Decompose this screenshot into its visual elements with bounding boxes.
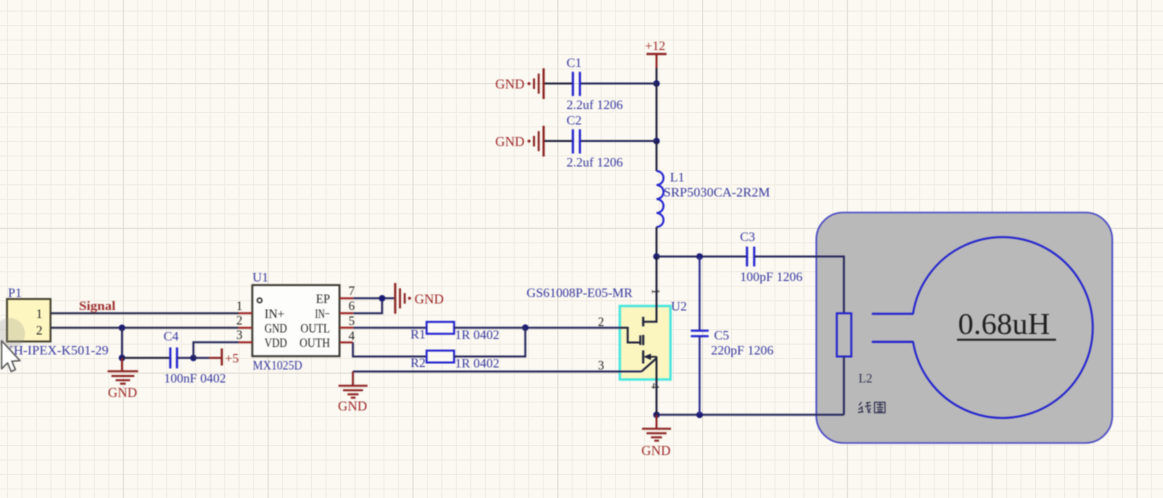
svg-text:C4: C4 (164, 329, 180, 344)
net label Signal (79, 298, 116, 313)
node gate junction (522, 324, 529, 331)
svg-text:R1: R1 (411, 327, 426, 342)
svg-text:GND: GND (641, 443, 670, 458)
svg-text:MX1025D: MX1025D (253, 357, 302, 372)
U1 pin 6 stub (340, 312, 354, 314)
capacitor C4 (164, 329, 227, 386)
U2 mosfet source arrow (644, 354, 657, 360)
node C4 right junction (190, 355, 197, 362)
wire C2 node to L1 (656, 141, 658, 171)
U2 mosfet channel bars (642, 317, 644, 364)
svg-text:GND: GND (495, 134, 524, 149)
svg-text:2.2uf 1206: 2.2uf 1206 (567, 97, 624, 112)
svg-text:OUTH: OUTH (300, 335, 331, 350)
svg-text:OUTL: OUTL (301, 320, 331, 335)
svg-text:1: 1 (36, 306, 43, 321)
U1 pin numbers (236, 284, 355, 343)
svg-text:1R 0402: 1R 0402 (455, 356, 499, 371)
svg-text:VDD: VDD (265, 335, 288, 350)
svg-text:EP: EP (316, 291, 330, 306)
wire gate to U2 (525, 327, 620, 329)
wire bottom rail (657, 414, 844, 416)
wire to C4 (122, 357, 170, 359)
ground at EP (395, 283, 444, 314)
svg-text:2: 2 (236, 313, 242, 327)
svg-text:GS61008P-E05-MR: GS61008P-E05-MR (527, 286, 634, 300)
wire C5 upper (699, 257, 701, 331)
inductor L1 (657, 170, 771, 228)
U2 pin 2 number (598, 315, 604, 329)
node C4 left junction (119, 355, 126, 362)
svg-text:IN+: IN+ (265, 306, 285, 321)
svg-text:P1: P1 (8, 285, 22, 300)
svg-text:220pF 1206: 220pF 1206 (711, 343, 774, 358)
svg-text:SRP5030CA-2R2M: SRP5030CA-2R2M (664, 185, 771, 200)
coil value 0.68uH (957, 306, 1056, 341)
wire C3 to L2 column (755, 257, 844, 314)
cursor halo (0, 318, 25, 349)
svg-text:C1: C1 (567, 55, 582, 70)
wire L2 to bottom rail (843, 357, 845, 415)
wire P1 pin1 to U1 (51, 312, 239, 314)
svg-text:4: 4 (349, 329, 356, 343)
capacitor C2 (567, 113, 624, 170)
wire pin2 down to C4 row (121, 328, 123, 358)
wire switch node to C3 (657, 256, 748, 258)
node bottom left junction (653, 412, 660, 419)
svg-text:5: 5 (349, 314, 355, 328)
svg-text:6: 6 (349, 299, 355, 313)
power +12 (645, 38, 667, 68)
label coil chinese (858, 402, 885, 413)
svg-text:Signal: Signal (79, 298, 116, 313)
capacitor C3 (740, 229, 803, 284)
U1 pin names (265, 291, 331, 350)
svg-text:C5: C5 (714, 328, 729, 343)
U1 pin 7 stub (340, 297, 354, 299)
ground at C4 (108, 358, 139, 400)
wire C5 lower (699, 337, 701, 415)
svg-text:1: 1 (236, 299, 242, 313)
capacitor C1 (567, 55, 624, 112)
connector P1 (4, 285, 109, 357)
inductor L2 symbol (837, 313, 873, 385)
U1 pin 4 stub (340, 341, 353, 343)
wire GND to C2 (545, 140, 573, 142)
node bottom C5 junction (696, 412, 703, 419)
power +5 (193, 348, 238, 365)
svg-text:100nF 0402: 100nF 0402 (164, 371, 226, 386)
node pin2 junction (119, 325, 126, 332)
U1 pin 2 stub (239, 327, 253, 329)
node C2 junction (653, 138, 660, 145)
svg-text:4: 4 (649, 383, 661, 389)
svg-text:+12: +12 (645, 38, 665, 53)
svg-text:GND: GND (108, 385, 137, 400)
coil circle L2 drawing (913, 237, 1093, 418)
svg-text:7: 7 (349, 284, 355, 298)
node EP junction (379, 295, 386, 302)
transistor U2 body (527, 286, 687, 380)
wire P1 pin2 to U1 (51, 327, 239, 329)
IC U1 body (252, 270, 339, 373)
U2 pin 1 number (rotated) (649, 289, 661, 295)
resistor R2 (353, 328, 525, 371)
svg-text:0.68uH: 0.68uH (958, 306, 1050, 341)
svg-text:GND: GND (338, 399, 367, 414)
coil graphic block (gray blob) (816, 213, 1112, 444)
svg-text:GND: GND (265, 320, 288, 335)
svg-text:1R 0402: 1R 0402 (455, 327, 499, 342)
U1 pin 3 stub (239, 341, 253, 343)
node C1 junction (653, 80, 660, 87)
svg-text:L1: L1 (670, 170, 684, 185)
svg-text:2: 2 (36, 323, 43, 338)
ground below U1 (338, 372, 368, 414)
ground at C1 (495, 68, 543, 99)
mouse cursor (2, 341, 20, 372)
svg-text:+5: +5 (225, 351, 239, 366)
wire EP to ground (353, 297, 394, 299)
svg-text:L2: L2 (859, 372, 873, 386)
wire L1 to switch node (656, 227, 658, 257)
wire +12 to C1 node (656, 68, 658, 84)
capacitor C5 (691, 328, 774, 358)
svg-text:100pF 1206: 100pF 1206 (740, 269, 803, 284)
wire GND to C1 (545, 83, 573, 85)
wire C2 to rail (581, 140, 657, 142)
node top C5 junction (696, 253, 703, 260)
svg-text:C2: C2 (567, 113, 582, 128)
U2 pin 4 number (rotated) (649, 383, 661, 389)
U2 mosfet gate (620, 328, 641, 345)
resistor R1 (353, 322, 525, 342)
node switch junction A (653, 253, 660, 260)
svg-text:GND: GND (495, 77, 524, 92)
ground bottom (641, 415, 671, 458)
wire C1 to rail (581, 83, 657, 85)
svg-text:1: 1 (649, 289, 661, 295)
svg-text:R2: R2 (411, 355, 426, 370)
svg-text:2.2uf 1206: 2.2uf 1206 (567, 155, 624, 170)
coil lead lower (872, 341, 914, 343)
wire rail C1 to C2 (656, 84, 658, 142)
svg-text:3: 3 (236, 328, 242, 342)
svg-text:C3: C3 (740, 229, 755, 244)
svg-text:IN−: IN− (315, 306, 330, 321)
wire C4 to +5 node (178, 357, 194, 359)
U2 mosfet source lead (642, 358, 657, 415)
ground at C2 (495, 126, 543, 157)
wire IN- up to EP node (353, 298, 382, 313)
U2 mosfet drain lead (644, 257, 657, 322)
svg-text:GND: GND (415, 292, 444, 307)
wire source to U2 (353, 371, 642, 373)
wire up to VDD (193, 342, 238, 358)
U1 pin 5 stub (340, 327, 354, 329)
svg-text:U1: U1 (253, 270, 269, 285)
U1 pin 1 stub (239, 312, 253, 314)
coil lead upper (872, 313, 914, 315)
U2 pin 3 number (598, 359, 604, 373)
svg-text:U2: U2 (671, 299, 687, 314)
